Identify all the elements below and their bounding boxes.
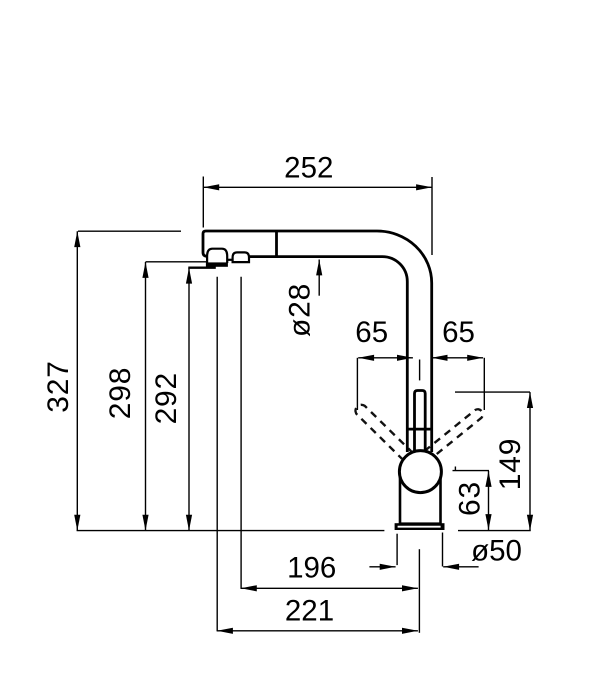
svg-text:63: 63 bbox=[454, 481, 487, 516]
svg-text:327: 327 bbox=[42, 360, 75, 412]
svg-text:149: 149 bbox=[494, 438, 527, 490]
svg-text:292: 292 bbox=[150, 372, 183, 424]
svg-text:65: 65 bbox=[442, 316, 475, 349]
svg-text:221: 221 bbox=[285, 595, 334, 628]
svg-text:ø28: ø28 bbox=[284, 283, 317, 337]
svg-text:ø50: ø50 bbox=[471, 535, 522, 568]
svg-text:65: 65 bbox=[355, 316, 388, 349]
svg-text:196: 196 bbox=[287, 552, 336, 585]
svg-text:298: 298 bbox=[104, 367, 137, 419]
svg-text:252: 252 bbox=[284, 152, 333, 185]
